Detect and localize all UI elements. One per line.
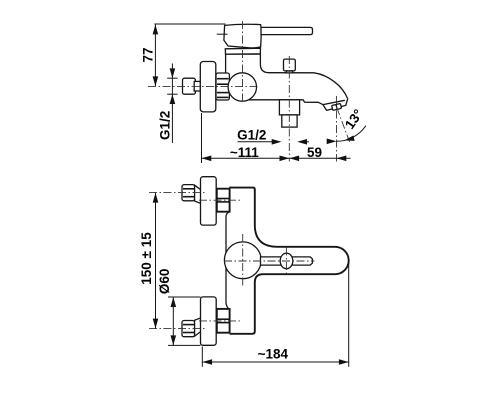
node dimension 59 xyxy=(289,156,350,162)
wire bottom faucet centerline (front view) xyxy=(199,320,241,322)
escutcheon top wall cover (front view) xyxy=(201,177,217,225)
node dimension diameter 60 xyxy=(171,297,177,345)
connector inlet neck (side view) xyxy=(194,81,200,91)
svg-text:59: 59 xyxy=(307,145,322,160)
escutcheon wall cover (side view) xyxy=(200,62,216,112)
svg-text:G1/2: G1/2 xyxy=(157,111,172,140)
wire bottom wall-fitting centerline (front view) xyxy=(149,328,206,330)
connector shower outlet collar (side view) xyxy=(279,100,299,115)
node dimension ~111 xyxy=(202,156,290,162)
node 13-degree dimension arc xyxy=(327,126,366,144)
node extension line left (~111) xyxy=(201,113,203,163)
svg-text:Ø60: Ø60 xyxy=(157,269,172,295)
connector bottom eccentric chamfer (front view) xyxy=(195,318,201,336)
wire horizontal centerline of wall inlet (side view) xyxy=(148,85,258,87)
body cartridge sphere (side view) xyxy=(228,73,256,101)
node dimension 77 (height from inlet axis to handle top) xyxy=(153,24,159,86)
node lever pivot tick xyxy=(217,33,228,35)
node aerator insert xyxy=(332,103,342,110)
wire vertical centerline of lever boss xyxy=(285,248,287,275)
escutcheon bottom wall cover (front view) xyxy=(201,297,217,345)
node extension lines for ~184 xyxy=(201,347,203,367)
connector inlet thread (side view) xyxy=(183,78,196,94)
svg-text:~111: ~111 xyxy=(230,145,259,160)
connector knurled nut (side view) xyxy=(216,73,229,100)
wire vertical centerline of shower outlet xyxy=(288,56,290,162)
connector top eccentric chamfer (front view) xyxy=(195,185,201,203)
connector top wall hex fitting (front view) xyxy=(182,185,195,201)
wire top faucet centerline (front view) xyxy=(199,199,241,201)
connector top connection nut (front view) xyxy=(217,189,230,212)
body cartridge circle (front view) xyxy=(224,242,261,279)
wire vertical centerline of cartridge circle xyxy=(242,234,244,287)
node dimension G1/2 left inlet thread xyxy=(167,64,177,144)
body handle cap (side view) xyxy=(224,24,261,48)
connector shower outlet thread G1/2 (side view) xyxy=(282,115,297,127)
body mixer body outline (front view) xyxy=(229,188,349,334)
svg-text:G1/2: G1/2 xyxy=(237,127,266,142)
node label G1/2 (shower outlet) with leader xyxy=(237,127,309,144)
body lever lug (front view) xyxy=(261,257,313,265)
body cartridge collar (side view) xyxy=(225,48,260,54)
body mixer body and spout outline (side view) xyxy=(226,54,348,110)
wire top wall-fitting centerline (front view) xyxy=(149,192,206,194)
node extension lines for diameter 60 xyxy=(168,296,201,298)
valve diverter knob (side view) xyxy=(284,59,296,71)
node lever screw boss ellipse (front view) xyxy=(280,253,293,269)
svg-text:~184: ~184 xyxy=(258,346,289,361)
wire vertical centerline of aerator xyxy=(336,96,338,162)
wire vertical centerline of handle/body (side view) xyxy=(242,21,244,103)
node dimension 150 +/- 15 xyxy=(153,193,159,329)
body left edge of body between fittings (front view) xyxy=(226,212,230,310)
node dimension ~184 xyxy=(202,359,348,365)
svg-text:150 ± 15: 150 ± 15 xyxy=(139,232,154,285)
node aerator inner line (spout tip) xyxy=(323,100,345,104)
connector bottom connection nut (front view) xyxy=(217,309,230,333)
connector bottom wall hex fitting (front view) xyxy=(182,321,195,337)
wire 13-degree slanted reference line xyxy=(337,108,350,142)
wire lever horizontal centerline (front view) xyxy=(224,260,315,262)
body lever bar (side view) xyxy=(261,27,313,34)
node 77-dimension top extension line xyxy=(154,23,225,25)
svg-text:77: 77 xyxy=(140,47,155,62)
